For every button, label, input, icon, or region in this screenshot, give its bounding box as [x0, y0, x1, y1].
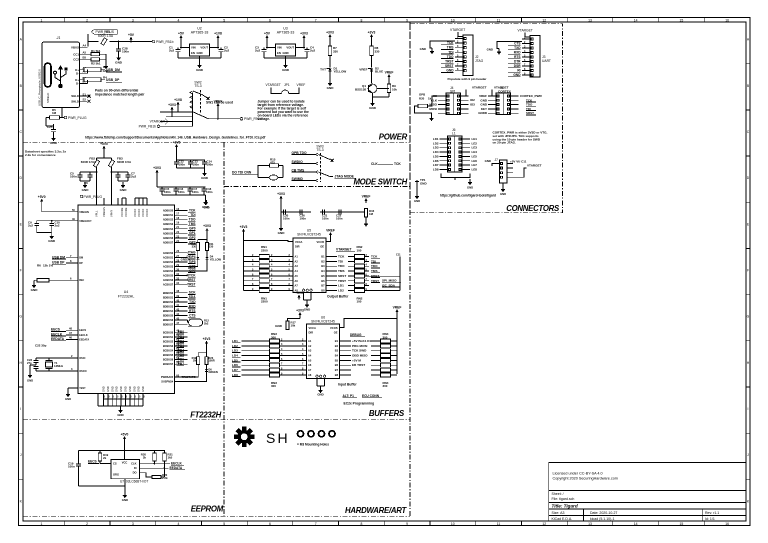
svg-text:GND: GND — [317, 393, 323, 397]
svg-text:A2: A2 — [295, 260, 299, 263]
svg-text:12MHz: 12MHz — [54, 364, 64, 368]
svg-text:A4: A4 — [83, 44, 87, 48]
svg-text:VTARGET: VTARGET — [266, 83, 281, 87]
svg-text:CC1: CC1 — [73, 52, 79, 56]
svg-text:F: F — [20, 269, 22, 273]
wires LEDs to ACBUS pins — [188, 259, 198, 266]
ferrite bead FB1 — [87, 45, 90, 47]
svg-text:VREF: VREF — [385, 70, 394, 74]
svg-text:B1: B1 — [321, 256, 325, 259]
power arrow +1V8 VCORE caps — [176, 146, 178, 149]
svg-text:BDBUS3: BDBUS3 — [163, 305, 174, 308]
ground under U6 — [320, 386, 322, 387]
svg-text:BCBUS6: BCBUS6 — [163, 359, 174, 362]
VCCIO decoupling caps C15 C16 C17 C18 100n — [161, 187, 163, 189]
power arrow VREF at SW2 output — [217, 105, 219, 108]
power arrow +1V8 at U2 output — [217, 37, 219, 40]
resistor R19 1M — [197, 357, 200, 365]
power arrow VREF buffer — [365, 200, 367, 203]
svg-text:7: 7 — [315, 522, 317, 526]
svg-text:B8: B8 — [321, 289, 325, 292]
resistor R7 330 — [328, 46, 332, 56]
svg-text:5: 5 — [223, 522, 225, 526]
svg-text:100n: 100n — [207, 163, 214, 167]
resistor R8 330 — [370, 46, 374, 56]
J7 left GND — [492, 164, 500, 167]
svg-text:DI: DI — [134, 466, 137, 470]
svg-text:C22 30p: C22 30p — [35, 344, 47, 348]
svg-text:DIR: DIR — [309, 331, 314, 335]
svg-text:3: 3 — [71, 367, 73, 371]
svg-text:600R 1.5A: 600R 1.5A — [98, 34, 114, 38]
svg-text:ADBUS3: ADBUS3 — [163, 223, 174, 226]
capacitor C3 2u2 — [263, 48, 265, 50]
header J2 JTAG body — [458, 32, 463, 37]
power arrow +3V3 buffer caps — [280, 197, 282, 200]
svg-text:GND: GND — [103, 386, 106, 392]
title block column separators — [583, 509, 585, 521]
svg-text:13: 13 — [588, 522, 592, 526]
svg-text:A: A — [20, 38, 23, 42]
switch SW2 contacts — [190, 91, 193, 94]
svg-text:100n: 100n — [68, 465, 75, 469]
resistor R11 330 — [205, 242, 208, 250]
power arrow +5V0 EEPROM — [124, 438, 126, 441]
svg-text:Date: 2020-10-27: Date: 2020-10-27 — [590, 511, 617, 515]
resistor R12 2k2 on BDBUS — [187, 320, 189, 323]
ground under U5 — [306, 300, 308, 302]
J6 ground bracket — [441, 174, 470, 178]
svg-text:2: 2 — [86, 522, 88, 526]
svg-text:EC2x Programming: EC2x Programming — [344, 402, 375, 406]
svg-text:DO: DO — [133, 471, 137, 475]
svg-text:VREGOUT: VREGOUT — [79, 220, 92, 223]
svg-text:5: 5 — [121, 396, 123, 399]
svg-text:+5V VU C11: +5V VU C11 — [510, 160, 527, 164]
svg-text:5: 5 — [143, 396, 145, 399]
ground VCCIO caps — [205, 195, 207, 199]
svg-text:100n: 100n — [322, 217, 329, 221]
svg-text:TRST: TRST — [338, 279, 346, 283]
svg-text:D-: D- — [76, 82, 79, 86]
svg-text:A3: A3 — [295, 265, 299, 268]
ground VCORE caps — [204, 168, 206, 170]
svg-text:9: 9 — [406, 18, 408, 22]
net label VREF at Q1 gate — [388, 76, 390, 79]
svg-text:VTARGET: VTARGET — [527, 164, 542, 168]
LED D4 YELLOW — [206, 251, 208, 257]
svg-text:A4: A4 — [308, 355, 312, 358]
resistors R1 R2 5k1 on CC pins — [88, 53, 92, 55]
svg-text:GND: GND — [142, 386, 145, 392]
section divider vertical line x=410 — [409, 22, 411, 516]
svg-text:VIN: VIN — [191, 46, 196, 50]
svg-text:15: 15 — [680, 18, 684, 22]
svg-text:Output Buffer: Output Buffer — [327, 295, 349, 299]
svg-text:GND: GND — [304, 308, 310, 312]
svg-text:GND: GND — [50, 141, 58, 145]
svg-text:U4: U4 — [124, 290, 129, 294]
svg-text:A3: A3 — [308, 350, 312, 353]
svg-text:A6: A6 — [308, 364, 312, 367]
LED D1 YELLOW — [328, 69, 331, 72]
svg-text:GND: GND — [369, 106, 377, 110]
svg-text:B6: B6 — [335, 364, 339, 367]
svg-text:VREF: VREF — [214, 99, 223, 103]
svg-text:1M: 1M — [369, 212, 374, 216]
svg-text:GREEN: GREEN — [208, 370, 217, 374]
svg-text:ACBUS7: ACBUS7 — [163, 284, 174, 287]
svg-text:12: 12 — [542, 522, 546, 526]
svg-text:A5: A5 — [295, 275, 299, 278]
svg-text:7: 7 — [70, 254, 72, 258]
svg-text:475: 475 — [270, 160, 275, 164]
svg-text:+3V3: +3V3 — [203, 224, 211, 228]
svg-text:ADBUS6: ADBUS6 — [163, 237, 174, 240]
svg-text:VPLL: VPLL — [95, 210, 99, 217]
ground under Q1 — [372, 97, 374, 100]
svg-text:1k5: 1k5 — [168, 456, 173, 460]
svg-text:GND: GND — [133, 386, 136, 392]
EEPROM left bottom rail — [79, 485, 125, 487]
svg-text:Title: Tigard: Title: Tigard — [552, 504, 578, 509]
USB trident symbol — [54, 66, 68, 88]
svg-text:VREF: VREF — [362, 194, 371, 198]
svg-text:PWRSAV#: PWRSAV# — [161, 376, 174, 379]
svg-text:Populate with 9 pin header: Populate with 9 pin header — [448, 77, 488, 81]
svg-text:5: 5 — [135, 396, 137, 399]
left caps C9 C10 2u2 — [41, 200, 43, 203]
small cap below R15 — [269, 175, 277, 180]
svg-text:kicad (5.1.10)-1: kicad (5.1.10)-1 — [590, 517, 614, 521]
svg-text:VREF: VREF — [393, 305, 402, 309]
svg-text:VCCIO: VCCIO — [141, 209, 145, 217]
svg-text:https://www.ftdichip.com/Suppo: https://www.ftdichip.com/Support/Documen… — [85, 135, 266, 139]
IC U6 body — [307, 324, 340, 379]
svg-text:2u2: 2u2 — [28, 224, 33, 228]
EEPROM CLK DI DO wires — [139, 463, 154, 465]
section divider FT2232H/BUFFERS bottom — [23, 419, 410, 421]
svg-text:Rev: r1.1: Rev: r1.1 — [705, 511, 719, 515]
svg-text:VCCIO: VCCIO — [133, 209, 137, 217]
svg-text:OE: OE — [334, 331, 338, 335]
svg-text:I: I — [20, 407, 21, 411]
svg-text:GND: GND — [201, 176, 209, 180]
svg-text:TCK: TCK — [394, 162, 401, 166]
svg-text:1M: 1M — [52, 111, 57, 115]
svg-text:U7: U7 — [120, 479, 124, 483]
LED indicator D1 power arrow +3V3 — [329, 36, 331, 39]
svg-text:B: B — [747, 84, 750, 88]
svg-text:Copyright 2020 SecuringHardwar: Copyright 2020 SecuringHardware.com — [553, 477, 618, 481]
svg-text:LE5: LE5 — [472, 154, 478, 158]
svg-text:GND: GND — [196, 68, 204, 72]
svg-text:47: 47 — [69, 331, 72, 335]
svg-text:G: G — [19, 315, 22, 319]
header J6 pin rows — [440, 138, 448, 140]
svg-text:27p: 27p — [27, 361, 32, 365]
svg-text:VBUS: VBUS — [71, 45, 79, 49]
capacitor C25 10n — [46, 117, 50, 119]
svg-text:VREGIN: VREGIN — [79, 211, 89, 214]
svg-text:DP: DP — [79, 262, 83, 265]
svg-text:LE8: LE8 — [472, 167, 478, 171]
svg-text:A5: A5 — [83, 50, 87, 54]
svg-text:ACBUS2: ACBUS2 — [163, 261, 174, 264]
svg-text:VTARGET: VTARGET — [518, 29, 533, 33]
svg-text:BDBUS4: BDBUS4 — [163, 310, 174, 313]
svg-text:VREF: VREF — [326, 228, 335, 232]
svg-text:OBD MISO: OBD MISO — [352, 354, 368, 358]
svg-text:VCORE: VCORE — [124, 207, 128, 217]
svg-text:GND: GND — [467, 186, 473, 190]
svg-text:GND: GND — [120, 188, 128, 192]
svg-text:3: 3 — [132, 522, 134, 526]
USB pin stubs — [80, 46, 88, 48]
svg-text:F: F — [747, 269, 749, 273]
svg-text:GND: GND — [115, 61, 123, 65]
svg-text:K: K — [20, 499, 23, 503]
svg-text:on 20-pin JTAG.: on 20-pin JTAG. — [493, 141, 517, 145]
svg-text:1: 1 — [40, 522, 42, 526]
svg-text:BDBUS1: BDBUS1 — [163, 296, 174, 299]
svg-text:LD2: LD2 — [338, 288, 344, 292]
svg-text:A5: A5 — [308, 359, 312, 362]
svg-text:GND: GND — [282, 51, 288, 55]
svg-text:VCCB: VCCB — [317, 240, 325, 244]
svg-text:EB TRST: EB TRST — [352, 363, 365, 367]
svg-text:2u2: 2u2 — [255, 49, 260, 53]
ground flag above ADBUS — [206, 200, 208, 203]
svg-text:100: 100 — [357, 300, 362, 304]
resistor R15 component — [258, 166, 270, 175]
svg-text:E: E — [747, 222, 750, 226]
svg-text:ADBUS4: ADBUS4 — [163, 228, 174, 231]
svg-text:Sheet: /: Sheet: / — [552, 492, 564, 496]
svg-text:B3: B3 — [321, 265, 325, 268]
SecuringHardware gear logo — [234, 427, 255, 448]
svg-text:SRST: SRST — [338, 274, 346, 278]
svg-text:PWR_PLUG: PWR_PLUG — [84, 195, 103, 199]
svg-text:16: 16 — [725, 522, 729, 526]
svg-text:GND: GND — [414, 199, 420, 203]
svg-text:100n: 100n — [300, 217, 307, 221]
svg-text:+5V: +5V — [178, 31, 185, 35]
svg-text:H: H — [278, 430, 288, 446]
svg-text:2u2: 2u2 — [310, 49, 315, 53]
svg-text:EEPROM: EEPROM — [191, 505, 224, 514]
U2 ground — [199, 56, 201, 62]
svg-text:11: 11 — [497, 522, 501, 526]
svg-text:impedance matched length pair: impedance matched length pair — [95, 92, 145, 96]
svg-text:GND: GND — [120, 386, 123, 392]
svg-text:VTARGET: VTARGET — [150, 120, 165, 124]
svg-text:B6: B6 — [321, 280, 325, 283]
svg-text:GND: GND — [420, 182, 427, 186]
wires VCORE VCCIO into U4 top — [122, 197, 126, 199]
svg-text:H: H — [19, 361, 22, 365]
svg-text:LD5: LD5 — [433, 154, 439, 158]
title block row lines — [549, 490, 746, 492]
section divider vertical line x=224 — [223, 142, 225, 516]
USB connector USB-C pill icon — [45, 63, 52, 87]
svg-text:10: 10 — [451, 18, 455, 22]
net label PWR_PLUG into U4 — [80, 195, 83, 198]
svg-text:Size: A3: Size: A3 — [552, 511, 565, 515]
ferrite FB2 600R — [93, 160, 99, 167]
svg-text:TS-3: TS-3 — [316, 148, 323, 152]
svg-text:SUSPND#: SUSPND# — [161, 381, 173, 384]
svg-text:2200: 2200 — [261, 249, 268, 253]
svg-text:CLK: CLK — [371, 162, 378, 166]
svg-text:GND: GND — [278, 231, 286, 235]
svg-text:B8: B8 — [335, 374, 339, 377]
svg-text:GND: GND — [327, 86, 335, 90]
capacitor C1 2u2 — [177, 48, 179, 50]
svg-text:8: 8 — [70, 259, 72, 263]
svg-text:+3V3: +3V3 — [300, 31, 308, 35]
svg-text:Licensed under CC-BY-SA 4.0: Licensed under CC-BY-SA 4.0 — [553, 472, 603, 476]
switch SW2 output to VREF — [209, 118, 241, 120]
svg-text:48: 48 — [69, 326, 72, 330]
ground under U7 — [124, 492, 126, 495]
svg-text:6: 6 — [269, 522, 271, 526]
section divider MODE SWITCH bottom — [224, 186, 410, 188]
svg-text:A: A — [747, 38, 750, 42]
header J3 UART body — [525, 33, 530, 38]
svg-text:93LC66BT-I/OT: 93LC66BT-I/OT — [126, 479, 148, 483]
svg-text:BDBUS2: BDBUS2 — [163, 301, 174, 304]
svg-text:VOUT: VOUT — [286, 46, 294, 50]
svg-text:BCBUS2: BCBUS2 — [163, 340, 174, 343]
svg-text:VREF: VREF — [359, 68, 367, 72]
svg-text:2u2: 2u2 — [224, 49, 229, 53]
svg-text:TCK SWD: TCK SWD — [352, 349, 367, 353]
switch SW2 dashed actuator — [200, 90, 202, 114]
svg-text:330: 330 — [192, 245, 197, 249]
svg-text:H: H — [747, 361, 750, 365]
switch SW2 upper throw — [193, 91, 207, 97]
svg-text:VCCIO: VCCIO — [137, 209, 141, 217]
LED D2 BLUE — [370, 69, 373, 72]
J7 bottom ground — [502, 183, 504, 186]
svg-text:16: 16 — [725, 18, 729, 22]
resistor R3 27 on D+ — [84, 69, 88, 71]
svg-text:UART: UART — [542, 59, 551, 63]
svg-text:100: 100 — [357, 249, 362, 253]
svg-text:FT2232HL: FT2232HL — [118, 295, 135, 299]
svg-text:100n: 100n — [70, 175, 77, 179]
header J6 body 2x8 — [448, 136, 463, 172]
svg-text:2u2: 2u2 — [55, 224, 60, 228]
svg-text:TMS: TMS — [338, 269, 345, 273]
svg-text:2u2: 2u2 — [169, 49, 174, 53]
svg-text:J: J — [747, 453, 749, 457]
svg-text:OSCI: OSCI — [79, 357, 85, 360]
svg-text:+5V M: +5V M — [352, 358, 361, 362]
svg-text:LE3: LE3 — [472, 146, 478, 150]
power arrow +5V above wire — [130, 38, 132, 41]
svg-text:2k2: 2k2 — [204, 322, 209, 326]
ground crystal caps — [29, 372, 31, 375]
header J4 body 2x5 — [446, 93, 461, 115]
caps C5 C6 on VPLL — [96, 167, 98, 172]
svg-text:A1: A1 — [295, 256, 299, 259]
section divider EEPROM/HARDWARE bottom — [23, 515, 410, 517]
svg-text:POWER: POWER — [379, 133, 408, 142]
svg-text:10k: 10k — [392, 88, 397, 92]
svg-text:C: C — [19, 130, 22, 134]
svg-text:CONNECTORS: CONNECTORS — [506, 204, 560, 213]
power arrow +3V3 at SW2 — [171, 108, 173, 111]
svg-text:100R: 100R — [208, 359, 214, 363]
power arrow +3V3 at U5 left — [243, 230, 245, 233]
svg-text:100n: 100n — [179, 163, 186, 167]
svg-text:BDBUS6: BDBUS6 — [163, 319, 174, 322]
svg-text:BDBUS5: BDBUS5 — [163, 315, 174, 318]
svg-text:OPB: OPB — [419, 93, 425, 97]
svg-text:BCBUS0: BCBUS0 — [163, 331, 174, 334]
net label PWR_FB1b at SW2 — [157, 125, 160, 128]
U4 ACBUS pin group — [174, 252, 187, 254]
caps C7 C8 on VPHY — [111, 167, 113, 172]
svg-text:E: E — [20, 222, 23, 226]
svg-text:ACBUS6: ACBUS6 — [163, 279, 174, 282]
svg-text:5: 5 — [223, 18, 225, 22]
svg-text:ADBUS2: ADBUS2 — [163, 219, 174, 222]
switch SW2 pole diagonal — [193, 112, 209, 119]
svg-text:100n: 100n — [192, 190, 199, 194]
svg-text:GND: GND — [420, 47, 426, 51]
svg-text:VCCA: VCCA — [295, 240, 303, 244]
svg-text:VCCIO: VCCIO — [145, 209, 149, 217]
svg-text:BCBUS4: BCBUS4 — [163, 350, 174, 353]
svg-text:D-: D- — [76, 71, 79, 75]
svg-text:+3V3: +3V3 — [295, 291, 303, 295]
svg-text:GND: GND — [117, 413, 123, 417]
U6 right rows and labels — [340, 340, 352, 342]
svg-text:J: J — [20, 453, 22, 457]
U4 BDBUS pin group — [174, 292, 187, 294]
header J7 body 1x4 — [500, 160, 508, 183]
svg-text:I: I — [748, 407, 749, 411]
svg-text:PWR_PLUG: PWR_PLUG — [68, 116, 87, 120]
U4 top pin stubs — [103, 198, 105, 205]
svg-text:+3V3: +3V3 — [203, 337, 211, 341]
svg-text:BUFFERS: BUFFERS — [369, 409, 405, 418]
svg-text:TDI: TDI — [338, 259, 343, 263]
svg-text:2.2u for convenience: 2.2u for convenience — [25, 153, 56, 157]
buffer caps C21 C22 VREF rail — [320, 211, 345, 213]
svg-text:TRISTATE: TRISTATE — [182, 375, 196, 379]
svg-text:BCBUS3: BCBUS3 — [163, 345, 174, 348]
svg-text:7: 7 — [315, 18, 317, 22]
svg-text:B5: B5 — [83, 56, 87, 60]
power arrow +5V at U3 input — [266, 37, 268, 40]
svg-text:OSCO: OSCO — [79, 370, 86, 373]
svg-text:+1V8: +1V8 — [173, 140, 181, 144]
svg-text:S: S — [266, 430, 275, 446]
resistor R16 1M — [345, 211, 366, 213]
svg-text:AP7365-18: AP7365-18 — [191, 31, 209, 35]
svg-text:Input Buffer: Input Buffer — [338, 383, 357, 387]
switch SW3 contacts — [315, 153, 318, 156]
VCORE decoupling caps C12 C13 C14 100n — [176, 160, 178, 162]
svg-text:OE: OE — [320, 245, 324, 249]
svg-text:46: 46 — [69, 336, 72, 340]
svg-text:J7: J7 — [495, 158, 499, 162]
svg-text:K: K — [747, 499, 750, 503]
